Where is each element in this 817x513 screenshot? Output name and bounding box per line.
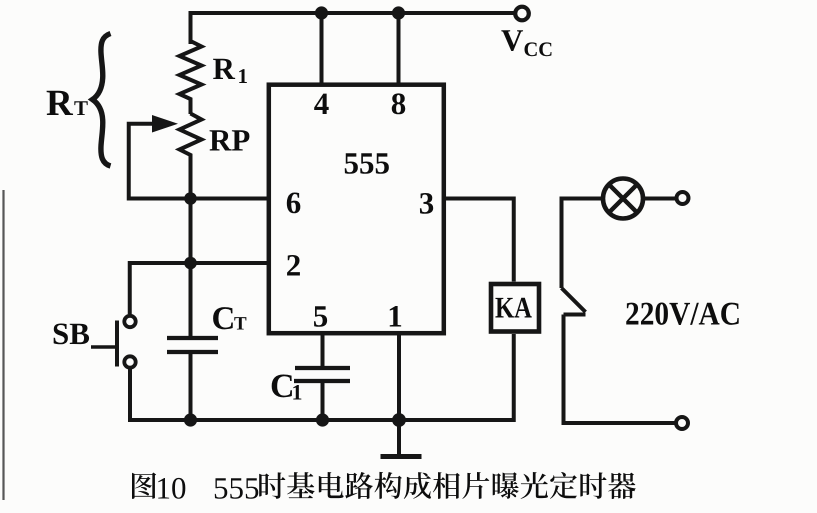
svg-text:2: 2: [286, 248, 302, 283]
caption char 电: [319, 472, 344, 498]
relay contact fixed tick: [564, 313, 586, 317]
svg-text:SB: SB: [52, 316, 90, 351]
relay contact KA blade: [562, 288, 586, 312]
pushbutton SB stem: [91, 345, 115, 349]
terminal VCC open circle: [515, 7, 529, 21]
svg-text:CC: CC: [524, 39, 554, 61]
pushbutton SB actuator bar: [115, 321, 119, 367]
junction node pin2/CT: [184, 257, 197, 270]
svg-text:5: 5: [313, 299, 329, 334]
IC 555 box: [269, 85, 444, 334]
relay coil KA box: [491, 284, 539, 332]
svg-text:10: 10: [156, 471, 187, 506]
resistor R1: [180, 41, 202, 114]
terminal AC top open circle: [677, 192, 689, 204]
capacitor CT plates: [167, 338, 218, 352]
wire: CT bottom to rail: [189, 352, 193, 420]
caption char 图: [132, 472, 156, 498]
junction node rail/pin1/ground: [392, 413, 406, 427]
RP wiper arrow: [152, 115, 178, 133]
wire: pin 4 to rail: [320, 13, 324, 86]
ground lead: [397, 420, 401, 455]
wire: contact to bottom right terminal: [564, 315, 676, 424]
junction node pin6/RP wiper: [184, 192, 197, 205]
junction node rail/CT: [184, 413, 197, 426]
svg-text:3: 3: [419, 186, 435, 221]
svg-text:8: 8: [391, 86, 407, 121]
wire: C1 bottom to rail: [321, 381, 325, 420]
caption char 器: [608, 473, 636, 499]
caption char 定: [550, 472, 577, 499]
scan artifact line at left edge: [2, 190, 4, 500]
wire: SB bottom lead, bottom rail, KA bottom lead: [130, 334, 514, 420]
junction node rail/C1: [316, 413, 329, 426]
svg-text:555: 555: [344, 146, 391, 181]
wire: pin 1 to rail: [397, 331, 401, 420]
wire: pin 5 to capacitor C1: [321, 331, 325, 367]
caption char 构: [375, 472, 402, 499]
lamp X stroke 1: [609, 184, 637, 212]
caption char 相: [433, 472, 460, 499]
wire: pin 8 to rail: [397, 13, 401, 86]
caption char 时: [259, 472, 285, 499]
ground bar: [381, 454, 422, 459]
wire: RP wiper loop into pin 6 line: [129, 124, 270, 199]
svg-text:T: T: [234, 314, 247, 335]
svg-text:R: R: [213, 51, 236, 86]
pushbutton SB bottom contact: [124, 356, 135, 367]
caption char 时: [580, 472, 606, 499]
svg-text:220V/AC: 220V/AC: [625, 297, 741, 333]
svg-text:R: R: [46, 83, 74, 124]
svg-text:1: 1: [238, 64, 249, 88]
terminal AC bottom open circle: [676, 417, 688, 429]
wire: lamp left lead down to relay contact: [562, 199, 604, 289]
pushbutton SB top contact: [124, 316, 135, 327]
junction node rail/pin8: [392, 6, 405, 19]
svg-text:V: V: [501, 23, 524, 58]
svg-text:1: 1: [292, 380, 303, 405]
potentiometer RP body: [180, 114, 202, 161]
caption char 成: [404, 472, 431, 499]
svg-text:555: 555: [213, 471, 260, 506]
junction node rail/pin4: [315, 6, 328, 19]
caption char 基: [287, 472, 314, 498]
lamp EL circle: [603, 179, 643, 219]
svg-text:1: 1: [387, 299, 403, 334]
caption char 片: [462, 472, 489, 499]
caption char 曝: [493, 472, 519, 499]
svg-text:RP: RP: [209, 123, 250, 158]
wire: lamp to right terminal: [645, 197, 675, 201]
wire: pin 3 to relay coil KA: [443, 199, 514, 282]
svg-text:4: 4: [314, 86, 330, 121]
capacitor C1 plates: [294, 368, 350, 381]
brace for RT group: [93, 34, 111, 167]
caption char 路: [345, 472, 373, 499]
caption char 光: [521, 472, 548, 499]
svg-text:C: C: [212, 301, 236, 337]
svg-text:6: 6: [286, 185, 302, 220]
wire: pin 2 line and SB top lead: [130, 263, 270, 314]
svg-text:T: T: [74, 96, 88, 120]
wire: top VCC rail and R1 top lead: [191, 13, 516, 44]
lamp X stroke 2: [609, 184, 637, 212]
svg-text:KA: KA: [495, 292, 532, 325]
wire: RP bottom through node 6 and node 2 to capacitor CT: [189, 158, 193, 336]
